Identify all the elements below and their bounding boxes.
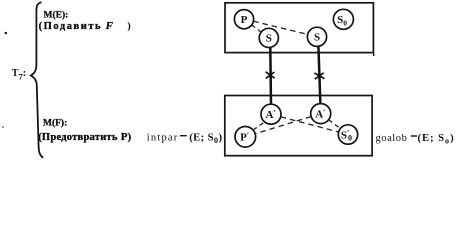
- cross mark on left wire: [266, 72, 275, 79]
- node S (right): [307, 27, 326, 46]
- node S'0: [338, 125, 357, 144]
- svg-text:(Подавить: (Подавить: [39, 21, 103, 32]
- node A' (left): [261, 104, 281, 124]
- svg-text:(E; S0): (E; S0): [189, 132, 222, 145]
- svg-text:): ): [127, 21, 131, 32]
- node A' (right): [311, 104, 331, 124]
- svg-text:P: P: [241, 14, 248, 26]
- svg-text:P): P): [121, 131, 132, 143]
- stray dot: [5, 32, 8, 35]
- dashed link P to S-right: [253, 21, 308, 34]
- node P: [234, 10, 253, 29]
- top box: [225, 3, 373, 53]
- curly brace: [31, 2, 43, 158]
- svg-text:intpar: intpar: [147, 133, 179, 144]
- svg-text:T7:: T7:: [12, 68, 26, 82]
- node S (left): [259, 28, 278, 47]
- dashed link P' to A'-left: [253, 123, 264, 130]
- dashed link P to S-left: [252, 25, 262, 32]
- wire S-left to A'-left (solid): [269, 47, 272, 106]
- cross mark on right wire: [314, 73, 324, 79]
- dashed link A'-right to S'0: [329, 120, 341, 129]
- superscript minus: [180, 135, 187, 137]
- svg-text:S: S: [314, 32, 320, 44]
- dashed link A'-left to S'0: [281, 117, 339, 132]
- svg-text:(E; So): (E; So): [418, 132, 455, 145]
- svg-text:M(F):: M(F):: [43, 118, 67, 129]
- top box corner tick: [373, 53, 375, 56]
- node S0: [333, 9, 353, 29]
- dashed link A'-right to P': [255, 117, 311, 134]
- superscript minus: [411, 135, 417, 137]
- svg-text:F: F: [105, 20, 114, 32]
- node P': [235, 127, 256, 148]
- svg-text:goalob: goalob: [376, 133, 408, 144]
- bottom box: [225, 96, 372, 156]
- svg-text:M(E):: M(E):: [44, 9, 69, 20]
- wire S-right to A'-right (solid): [318, 46, 320, 105]
- svg-text:S: S: [266, 33, 272, 45]
- svg-text:(Предотвратить: (Предотвратить: [38, 132, 118, 143]
- stray speck: [2, 126, 4, 128]
